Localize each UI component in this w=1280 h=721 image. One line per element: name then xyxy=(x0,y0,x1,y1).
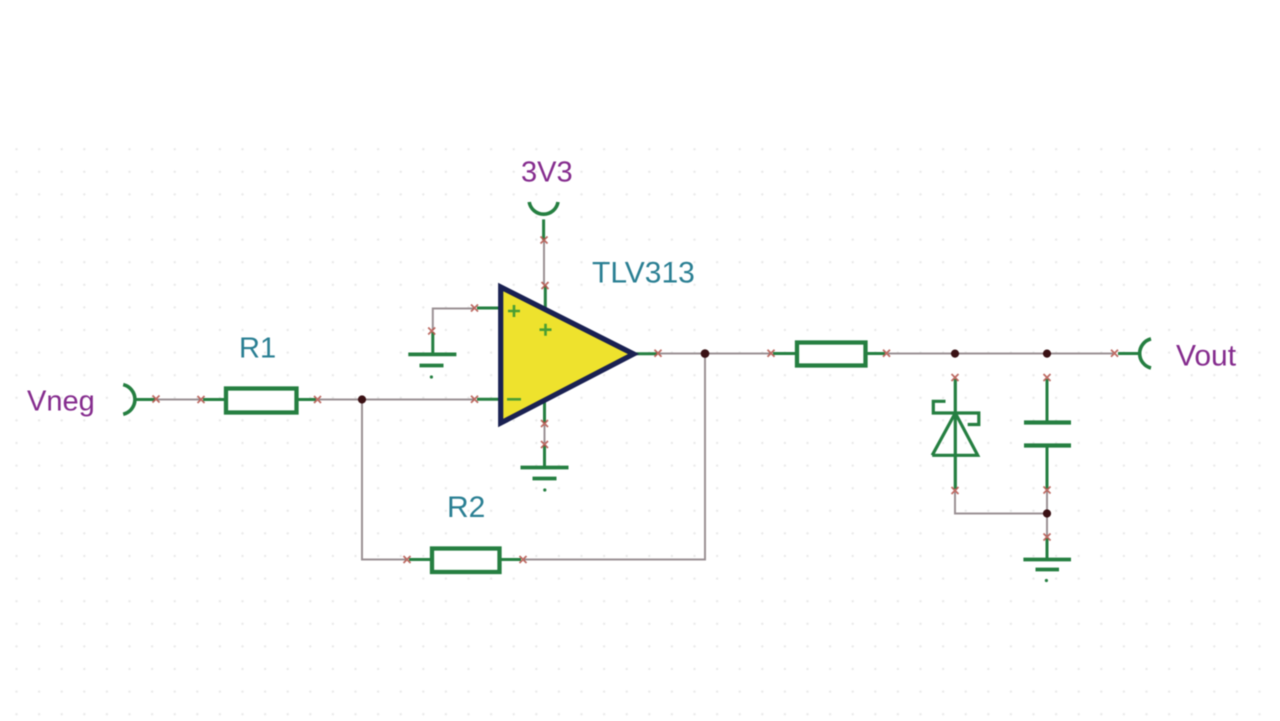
svg-text:Vout: Vout xyxy=(1176,340,1237,373)
svg-text:R1: R1 xyxy=(239,333,276,365)
svg-text:Vneg: Vneg xyxy=(27,386,95,418)
svg-text:3V3: 3V3 xyxy=(521,157,573,189)
svg-text:R2: R2 xyxy=(447,491,485,524)
svg-text:TLV313: TLV313 xyxy=(592,257,695,290)
